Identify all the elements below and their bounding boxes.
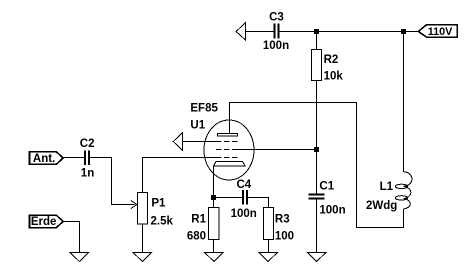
wire P1 bottom to ground xyxy=(142,224,144,252)
wire junction to C4 xyxy=(216,197,242,199)
capacitor C4 xyxy=(231,179,257,220)
wire Ant to C2 xyxy=(63,157,84,159)
svg-text:EF85: EF85 xyxy=(190,103,218,115)
svg-text:100n: 100n xyxy=(319,205,345,217)
svg-text:100: 100 xyxy=(275,230,294,242)
ground (P1) xyxy=(133,253,152,262)
svg-text:R1: R1 xyxy=(191,213,206,225)
svg-text:1n: 1n xyxy=(81,167,94,179)
svg-text:R2: R2 xyxy=(324,54,339,66)
node junction cathode/R1/C4 xyxy=(211,195,216,200)
wire R1 to ground xyxy=(213,240,215,253)
wire L1 bottom xyxy=(230,103,404,228)
svg-text:C4: C4 xyxy=(237,179,252,191)
wire junction to R1 xyxy=(213,200,215,208)
ground (R3) xyxy=(259,253,278,262)
net flag Ant. xyxy=(30,152,64,165)
wiper arrowhead xyxy=(131,200,137,208)
wire Erde to ground xyxy=(63,222,79,253)
svg-text:10k: 10k xyxy=(324,70,344,82)
svg-text:2Wdg: 2Wdg xyxy=(366,200,397,212)
svg-text:Erde: Erde xyxy=(31,216,57,228)
svg-text:C2: C2 xyxy=(80,138,95,150)
ground (R1) xyxy=(205,253,224,262)
wire C3 to 110V flag (top rail) xyxy=(279,31,418,33)
svg-text:680: 680 xyxy=(187,230,206,242)
node junction rail/R2 xyxy=(314,29,319,34)
wire g2 to screen node xyxy=(237,149,315,151)
svg-text:U1: U1 xyxy=(190,119,205,131)
svg-text:R3: R3 xyxy=(275,213,290,225)
connector arrow (g3) xyxy=(173,133,182,151)
svg-text:L1: L1 xyxy=(380,181,394,193)
wire P1 top to g1 xyxy=(143,158,217,193)
net flag Erde xyxy=(30,215,64,228)
svg-text:2.5k: 2.5k xyxy=(151,215,174,227)
potentiometer P1 xyxy=(138,193,174,228)
svg-text:C3: C3 xyxy=(269,11,284,23)
wire R2 bottom to C1 (crosses anode wire, junction at g2) xyxy=(316,81,318,194)
op-amp U1 tube EF85 envelope xyxy=(204,120,254,180)
node junction g2/R2-C1 xyxy=(314,147,319,152)
inductor L1 xyxy=(366,172,412,212)
grid g3 (dashes) xyxy=(216,141,237,143)
wire R3 to ground xyxy=(268,240,270,253)
grid g2 (dashes) xyxy=(216,149,237,151)
grid g1 (dashes) xyxy=(216,157,237,159)
resistor R2 xyxy=(312,32,344,83)
anode plate xyxy=(218,134,238,137)
wire arrow to g3 xyxy=(183,141,217,143)
capacitor C2 xyxy=(80,138,95,179)
capacitor C3 xyxy=(263,11,289,52)
net flag 110V xyxy=(418,25,457,38)
cathode xyxy=(213,162,245,167)
resistor R3 xyxy=(264,208,295,243)
wire C1 to ground xyxy=(316,199,318,252)
svg-text:110V: 110V xyxy=(428,26,453,38)
wire C2 to P1 wiper xyxy=(90,158,135,205)
connector arrow (left end of C3 rail) xyxy=(236,23,245,40)
ground (Erde) xyxy=(70,253,89,262)
svg-text:Ant.: Ant. xyxy=(33,153,55,165)
resistor R1 xyxy=(187,208,219,243)
wire rail to L1 xyxy=(403,32,405,173)
svg-text:C1: C1 xyxy=(319,181,334,193)
svg-text:100n: 100n xyxy=(231,208,257,220)
wire cathode lead xyxy=(213,166,215,196)
wire arrow to C3 xyxy=(246,31,275,33)
node junction rail/L1 xyxy=(401,29,406,34)
svg-text:P1: P1 xyxy=(151,198,166,210)
wire C4 to R3 xyxy=(248,198,269,208)
svg-text:100n: 100n xyxy=(263,40,289,52)
capacitor C1 xyxy=(309,181,346,217)
ground (C1) xyxy=(307,253,326,262)
